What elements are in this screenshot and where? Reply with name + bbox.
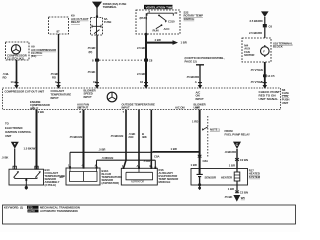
svg-text:1 BR: 1 BR bbox=[229, 163, 235, 167]
svg-text:AUTO: AUTO bbox=[28, 210, 35, 213]
in-car sensor pin ticks bbox=[68, 164, 97, 168]
svg-text:13 A: 13 A bbox=[11, 80, 17, 84]
svg-text:/GN: /GN bbox=[129, 135, 134, 139]
svg-text:RD: RD bbox=[3, 76, 7, 80]
svg-text:C8A: C8A bbox=[203, 159, 208, 163]
power feed triangle (fuse terminal) bbox=[93, 2, 101, 7]
evaporator inner bracket bbox=[126, 168, 153, 180]
wire bus to junction bbox=[145, 13, 147, 34]
thick wire timer to control unit bbox=[145, 34, 147, 85]
svg-text:MOTOR: MOTOR bbox=[244, 53, 254, 57]
svg-text:BLOCK: BLOCK bbox=[273, 45, 283, 49]
svg-text:1 RD: 1 RD bbox=[192, 119, 198, 123]
svg-text:.5 BR: .5 BR bbox=[99, 148, 106, 152]
power feed triangle right bbox=[261, 11, 269, 17]
pin tick A right bbox=[263, 82, 267, 84]
svg-text:ASPIRATOR: ASPIRATOR bbox=[131, 181, 144, 184]
svg-text:INPUT: INPUT bbox=[51, 96, 59, 100]
ground point W11 bbox=[11, 142, 19, 149]
relay K9 label bbox=[57, 14, 89, 34]
switch bus bar bbox=[147, 13, 173, 15]
svg-text:VENTILATION TIMER: VENTILATION TIMER bbox=[146, 5, 177, 9]
wire control unit to evaporator pin3 bbox=[150, 110, 152, 169]
svg-text:.75 VT/GN: .75 VT/GN bbox=[250, 68, 263, 72]
svg-text:W5: W5 bbox=[241, 196, 246, 200]
svg-text:.75 BK/GN: .75 BK/GN bbox=[110, 134, 123, 138]
wire ground to sensor box bbox=[14, 149, 16, 169]
pin label A4 and 9 bbox=[175, 105, 200, 123]
svg-text:PAGE 12): PAGE 12) bbox=[185, 59, 197, 63]
rotary switch label right bbox=[184, 10, 204, 20]
aux fan M4 dashed box bbox=[242, 38, 271, 62]
connector square on fuse wire bbox=[95, 59, 99, 62]
connector C6 square bbox=[263, 24, 267, 27]
svg-text:KEYWORD: (1): KEYWORD: (1) bbox=[4, 206, 23, 210]
svg-text:2.5 BK/RD: 2.5 BK/RD bbox=[250, 19, 263, 23]
logo star emblem bbox=[107, 92, 117, 102]
switch arm 2 labels bbox=[153, 27, 170, 32]
svg-text:INPUT: INPUT bbox=[84, 95, 92, 99]
label a/c on input bbox=[196, 90, 204, 100]
wire control unit to evaporator pin2 bbox=[138, 110, 140, 169]
svg-text:COMPRESSOR CUT-OUT UNIT: COMPRESSOR CUT-OUT UNIT bbox=[5, 89, 45, 93]
rotary switch S2 dashed box bbox=[136, 10, 180, 34]
svg-text:UNIT SIGNAL: UNIT SIGNAL bbox=[259, 97, 279, 101]
junction node bus x wire bbox=[82, 151, 84, 153]
pin nubs box3 bbox=[123, 167, 157, 169]
inline connector C8A on thick wire bbox=[198, 155, 208, 163]
switch arm 1 bbox=[158, 15, 167, 23]
pin tick 16 bbox=[144, 82, 148, 84]
svg-text:16: 16 bbox=[140, 80, 144, 84]
svg-text:A: A bbox=[195, 80, 197, 84]
wire below heater bbox=[236, 185, 238, 193]
svg-text:A: A bbox=[261, 80, 263, 84]
wire triangle C down bbox=[236, 149, 238, 169]
svg-text:C8: C8 bbox=[149, 58, 153, 62]
compressor label right bbox=[31, 45, 56, 59]
compressor clutch K1 box bbox=[6, 42, 30, 60]
label from fuel pump relay bbox=[225, 129, 250, 136]
svg-text:30: 30 bbox=[174, 11, 178, 15]
svg-text:C: C bbox=[55, 80, 57, 84]
pin label 2 BK bbox=[32, 105, 44, 114]
pin label 7 bbox=[110, 110, 125, 138]
svg-text:INPUT: INPUT bbox=[196, 97, 204, 101]
connector square at box1 left pin bbox=[13, 166, 16, 169]
label to electronic ignition bbox=[5, 122, 32, 139]
entry arrowhead pin 10 bbox=[95, 85, 100, 89]
svg-text:AUTOMATIC TRANSMISSION: AUTOMATIC TRANSMISSION bbox=[40, 209, 78, 213]
connector square on timer wire bbox=[144, 59, 148, 62]
wire label 2.5 BK upper bbox=[137, 46, 153, 84]
in-car sensor B11 box bbox=[66, 168, 100, 185]
label outside temperature input bbox=[122, 102, 156, 109]
wire label .5 BK/GN bbox=[129, 132, 136, 139]
pin tick A mid bbox=[198, 82, 202, 84]
wire connector to fan box bbox=[264, 27, 266, 38]
svg-text:1.5 BK/W: 1.5 BK/W bbox=[24, 147, 36, 151]
svg-text:/BK: /BK bbox=[142, 135, 147, 139]
thermistor symbol left bbox=[14, 171, 19, 177]
svg-text:HEATER: HEATER bbox=[221, 175, 232, 179]
svg-text:C8A: C8A bbox=[154, 155, 159, 159]
power feed label bbox=[103, 2, 127, 9]
wire label .75 BR (R) bbox=[87, 46, 97, 84]
heater element symbol bbox=[234, 169, 240, 186]
ground triangle W5 bbox=[233, 195, 245, 202]
svg-text:1 BR: 1 BR bbox=[191, 163, 197, 167]
svg-text:14 C5: 14 C5 bbox=[267, 74, 275, 78]
continuation label bbox=[185, 56, 225, 63]
svg-text:C2 BN: C2 BN bbox=[240, 190, 248, 194]
switch arm 2 bbox=[156, 24, 163, 28]
node at ground box bottom bbox=[198, 183, 201, 186]
label coolant temperature input bbox=[51, 89, 72, 100]
ground stub below box1 bbox=[25, 185, 28, 190]
svg-text:UNIT: UNIT bbox=[5, 134, 12, 138]
svg-text:SENSOR: SENSOR bbox=[205, 175, 217, 179]
thick ground arrow bbox=[146, 40, 178, 45]
coolant sensor B10 box bbox=[9, 169, 44, 185]
svg-text:(R): (R) bbox=[89, 50, 93, 54]
svg-text:.75 BK: .75 BK bbox=[87, 70, 95, 74]
evaporator pin labels bbox=[122, 164, 151, 168]
svg-text:.75 BK/RD: .75 BK/RD bbox=[186, 75, 199, 79]
svg-text:CLUTCH (K1): CLUTCH (K1) bbox=[7, 56, 24, 60]
svg-text:BR: BR bbox=[60, 175, 64, 179]
entry arrowhead pin A right bbox=[263, 85, 268, 89]
bus terminal label 30 bbox=[149, 9, 178, 15]
svg-text:MODULE: MODULE bbox=[159, 180, 171, 184]
ground distribution box bbox=[191, 169, 248, 186]
thick wire control unit to ground box bbox=[199, 110, 201, 169]
svg-text:NOTE 1: NOTE 1 bbox=[210, 127, 220, 131]
label aux fan output bbox=[77, 102, 89, 109]
svg-text:4 BR: 4 BR bbox=[155, 38, 161, 42]
dashed link connector C bbox=[99, 59, 142, 61]
aux fan motor symbol bbox=[261, 45, 270, 57]
thermistor symbol right bbox=[35, 171, 40, 177]
svg-text:(ASPIRATOR): (ASPIRATOR) bbox=[102, 181, 120, 185]
in-car sensor label right bbox=[102, 169, 123, 185]
svg-text:1 BR: 1 BR bbox=[228, 187, 234, 191]
wire label .75 BK/RD bbox=[50, 72, 58, 84]
wire label .5 BL/RD bbox=[3, 72, 17, 84]
svg-text:10: 10 bbox=[93, 80, 97, 84]
evaporator label right bbox=[159, 168, 179, 184]
connector node on fan wire bbox=[263, 74, 267, 77]
svg-text:INPUT: INPUT bbox=[122, 106, 130, 110]
power feed triangle C bbox=[233, 142, 241, 149]
svg-text:FUSE: FUSE bbox=[104, 20, 111, 24]
wire compressor to control unit bbox=[16, 60, 18, 85]
svg-text:RELAY: RELAY bbox=[71, 20, 80, 24]
wire label B/BK bbox=[142, 132, 147, 139]
svg-text:.5 RD/GN: .5 RD/GN bbox=[102, 156, 114, 160]
legend text line 1 bbox=[4, 206, 80, 210]
entry arrowhead pin 16 bbox=[144, 85, 149, 89]
svg-text:.5 RD: .5 RD bbox=[143, 159, 150, 163]
svg-text:2 BK: 2 BK bbox=[38, 110, 44, 114]
svg-text:.75 BK: .75 BK bbox=[224, 195, 232, 199]
svg-text:.5 BK: .5 BK bbox=[2, 156, 9, 160]
inline connector C2 on C wire bbox=[235, 158, 248, 162]
sensor common link bbox=[15, 177, 37, 185]
svg-text:1 BR: 1 BR bbox=[171, 147, 177, 151]
pin nubs box2 bbox=[69, 166, 97, 168]
label blower unit bbox=[194, 102, 206, 109]
wire fan to control unit bbox=[264, 62, 266, 85]
entry arrowhead pin A bbox=[198, 85, 203, 89]
compressor box label bbox=[7, 54, 27, 61]
svg-text:2.5 BK: 2.5 BK bbox=[137, 46, 145, 50]
continuation stub T-bar bbox=[196, 65, 204, 86]
fuse F1 box bbox=[91, 18, 103, 36]
svg-text:1 BR: 1 BR bbox=[181, 41, 187, 45]
svg-text:2.5 BK: 2.5 BK bbox=[137, 72, 145, 76]
legend text line 2 bbox=[28, 209, 78, 213]
pin tick 13A bbox=[15, 82, 19, 84]
wire fuse to control unit bbox=[96, 35, 98, 85]
svg-text:ACC: ACC bbox=[164, 27, 170, 31]
svg-text:.8 BK/RD: .8 BK/RD bbox=[225, 150, 237, 154]
ground stub below box4 bbox=[198, 185, 201, 190]
wire label .75 VT/GN bbox=[250, 68, 275, 84]
label blower speed input bbox=[84, 88, 96, 98]
wire relay to control unit bbox=[58, 34, 60, 85]
ventilation timer header bar bbox=[144, 5, 173, 9]
svg-text:C6: C6 bbox=[269, 24, 273, 28]
node at fuse top bbox=[96, 15, 98, 17]
thick bus wire right bbox=[153, 151, 200, 153]
inline connector C2 below box bbox=[235, 190, 248, 194]
svg-text:A4: A4 bbox=[196, 105, 200, 109]
terminal block label right bbox=[273, 41, 293, 48]
wire triangle to connector bbox=[264, 17, 266, 24]
svg-text:2.5 BK/RD: 2.5 BK/RD bbox=[249, 31, 262, 35]
svg-text:FUEL PUMP RELAY: FUEL PUMP RELAY bbox=[225, 133, 250, 137]
compressor symbol circle star bbox=[11, 45, 20, 54]
svg-text:.75 BK/GN: .75 BK/GN bbox=[69, 135, 82, 139]
svg-text:STD: STD bbox=[28, 206, 33, 209]
relay K9 box bbox=[49, 17, 69, 34]
node at sensor common bbox=[25, 179, 27, 181]
svg-text:UNIT: UNIT bbox=[282, 101, 289, 105]
fuse F1 element bbox=[92, 18, 101, 36]
svg-text:(K1): (K1) bbox=[31, 54, 36, 58]
evaporator sensor box bbox=[121, 168, 157, 185]
label engine compressor output bbox=[30, 100, 50, 110]
junction node at timer bottom bbox=[145, 33, 148, 36]
aux fan label inside bbox=[244, 43, 254, 57]
pin label B bbox=[79, 105, 82, 114]
svg-text:SWITCH: SWITCH bbox=[184, 17, 195, 21]
control unit N6 dashed box bbox=[3, 88, 281, 110]
wire control unit to evaporator pin1 bbox=[124, 110, 127, 169]
svg-text:RD: RD bbox=[52, 76, 56, 80]
label check point bold bbox=[259, 90, 280, 101]
series resistor label right bbox=[249, 168, 261, 178]
wire control unit to in-car sensor bbox=[83, 110, 85, 168]
battery plate symbol bbox=[197, 169, 203, 186]
legend box bbox=[3, 205, 296, 224]
svg-text:SYSTEM: SYSTEM bbox=[249, 175, 261, 179]
svg-text:RUN: RUN bbox=[153, 28, 159, 32]
bus wire left branch bbox=[70, 152, 153, 168]
coolant sensor label right bbox=[45, 168, 66, 187]
temperature dial mechanical link bbox=[202, 116, 220, 158]
wire label .75 BK/RD bbox=[186, 75, 199, 84]
pin tick 10 bbox=[95, 82, 99, 84]
svg-text:B: B bbox=[79, 105, 81, 109]
lower bus wire bbox=[97, 160, 156, 168]
svg-text:(2 POLE): (2 POLE) bbox=[45, 183, 57, 187]
svg-text:C2 BN: C2 BN bbox=[240, 158, 248, 162]
svg-text:TERMINAL: TERMINAL bbox=[103, 5, 117, 9]
in-car sensor inner body bbox=[70, 168, 98, 181]
fuse label 8A bbox=[104, 17, 111, 24]
entry arrowhead pin 13A bbox=[14, 85, 19, 89]
connector square at box1 right pin bbox=[35, 166, 38, 169]
entry arrowhead pin C bbox=[56, 85, 61, 89]
svg-text:C310: C310 bbox=[168, 20, 175, 24]
wire control unit to coolant sensor bbox=[36, 110, 38, 169]
svg-text:87: 87 bbox=[57, 29, 61, 33]
label N6 climate control right bbox=[282, 88, 290, 105]
pin tick C bbox=[57, 82, 61, 84]
svg-text:A/C ON: A/C ON bbox=[175, 105, 185, 109]
wire triangle to fuse bbox=[96, 8, 98, 18]
